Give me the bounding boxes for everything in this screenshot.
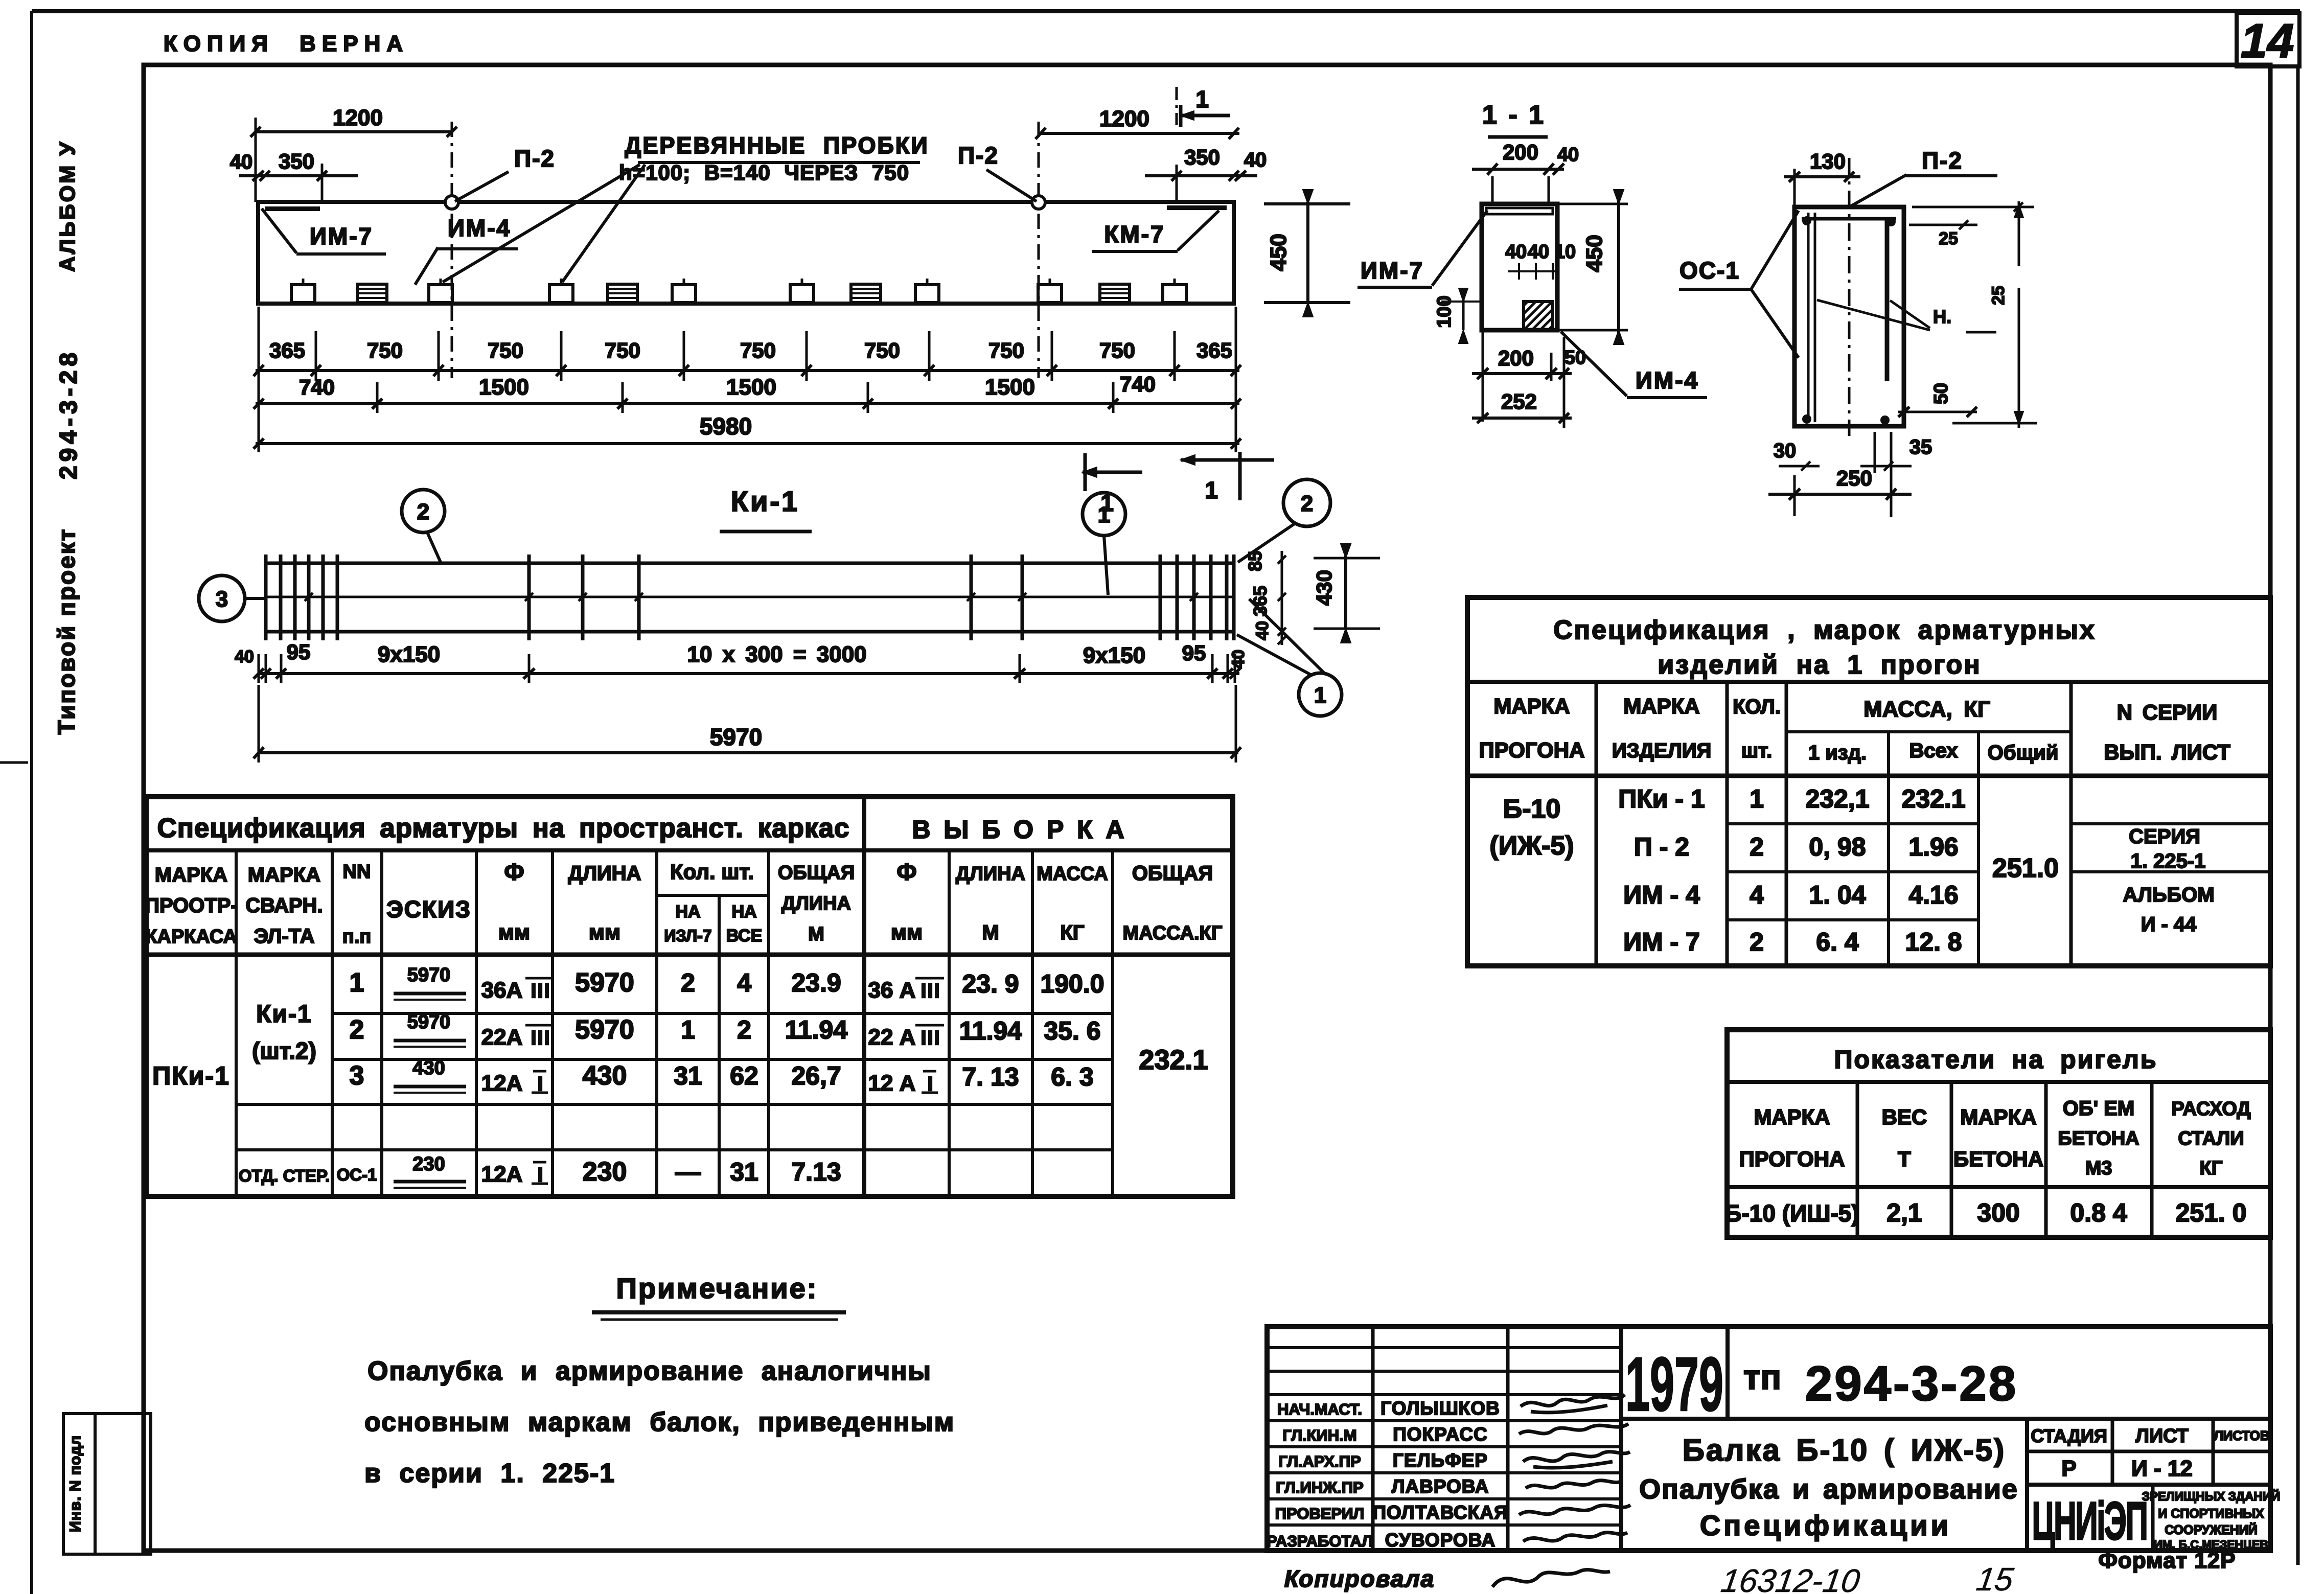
svg-text:2: 2 <box>681 968 695 997</box>
svg-text:МАРКА: МАРКА <box>248 864 320 886</box>
svg-text:И СПОРТИВНЫХ: И СПОРТИВНЫХ <box>2158 1507 2264 1521</box>
svg-text:430: 430 <box>1312 570 1336 606</box>
svg-text:Примечание:: Примечание: <box>616 1272 818 1304</box>
svg-text:ПОКРАСС: ПОКРАСС <box>1393 1424 1488 1445</box>
svg-text:85: 85 <box>1245 551 1265 571</box>
svg-text:БЕТОНА: БЕТОНА <box>2058 1128 2139 1149</box>
svg-text:мм: мм <box>498 920 530 944</box>
svg-text:СУВОРОВА: СУВОРОВА <box>1385 1530 1495 1551</box>
svg-text:1500: 1500 <box>985 375 1035 400</box>
svg-text:6. 3: 6. 3 <box>1051 1062 1093 1091</box>
svg-text:6. 4: 6. 4 <box>1816 928 1859 956</box>
svg-text:СТАЛИ: СТАЛИ <box>2178 1128 2244 1149</box>
svg-text:МАРКА: МАРКА <box>1623 694 1699 718</box>
svg-text:36А: 36А <box>481 978 523 1003</box>
svg-text:(шт.2): (шт.2) <box>252 1037 316 1064</box>
svg-text:МАРКА: МАРКА <box>1754 1105 1830 1129</box>
svg-text:КОЛ.: КОЛ. <box>1733 696 1781 718</box>
svg-text:ИМ-7: ИМ-7 <box>1361 257 1424 284</box>
svg-text:2: 2 <box>1750 833 1764 861</box>
svg-text:5980: 5980 <box>700 413 752 440</box>
svg-text:СООРУЖЕНИЙ: СООРУЖЕНИЙ <box>2165 1522 2257 1537</box>
svg-text:30: 30 <box>1774 440 1797 462</box>
svg-text:40: 40 <box>1229 650 1248 669</box>
svg-text:АЛЬБОМ: АЛЬБОМ <box>2123 884 2214 906</box>
svg-text:ИМ-4: ИМ-4 <box>1636 367 1699 394</box>
svg-text:III: III <box>531 980 550 1002</box>
svg-text:31: 31 <box>674 1061 702 1090</box>
svg-text:Т: Т <box>1898 1147 1911 1171</box>
svg-text:ЛАВРОВА: ЛАВРОВА <box>1392 1476 1489 1497</box>
svg-text:NN: NN <box>343 861 371 883</box>
svg-text:М3: М3 <box>2085 1158 2112 1179</box>
svg-text:КМ-7: КМ-7 <box>1104 221 1165 247</box>
svg-text:750: 750 <box>367 338 403 362</box>
svg-text:III: III <box>921 980 940 1002</box>
svg-text:750: 750 <box>864 338 900 362</box>
svg-text:35. 6: 35. 6 <box>1044 1017 1100 1045</box>
svg-text:в серии 1. 225-1: в серии 1. 225-1 <box>364 1459 615 1488</box>
svg-text:ЗРЕЛИЩНЫХ ЗДАНИЙ: ЗРЕЛИЩНЫХ ЗДАНИЙ <box>2142 1489 2280 1504</box>
svg-text:12А: 12А <box>481 1071 523 1096</box>
svg-text:ИМ - 4: ИМ - 4 <box>1623 881 1700 909</box>
svg-text:N СЕРИИ: N СЕРИИ <box>2117 700 2218 724</box>
svg-text:Балка Б-10 ( ИЖ-5): Балка Б-10 ( ИЖ-5) <box>1683 1433 2006 1467</box>
svg-text:22 А: 22 А <box>868 1025 916 1050</box>
svg-text:МАРКА: МАРКА <box>1960 1105 2036 1129</box>
svg-text:Общий: Общий <box>1988 742 2059 764</box>
svg-text:450: 450 <box>1266 234 1291 271</box>
svg-text:Опалубка и армирование ан: Опалубка и армирование аналогичны <box>367 1356 932 1386</box>
svg-text:ГОЛЫШКОВ: ГОЛЫШКОВ <box>1380 1398 1500 1419</box>
svg-text:1: 1 <box>1195 86 1209 112</box>
svg-text:ЛИСТОВ: ЛИСТОВ <box>2214 1428 2269 1443</box>
svg-text:ЭЛ-ТА: ЭЛ-ТА <box>254 925 314 948</box>
svg-text:40: 40 <box>1528 241 1549 263</box>
svg-text:КАРКАСА: КАРКАСА <box>145 926 237 948</box>
svg-text:ОБЩАЯ: ОБЩАЯ <box>1132 862 1213 885</box>
svg-text:МАРКА: МАРКА <box>1493 694 1570 718</box>
svg-text:251. 0: 251. 0 <box>2175 1198 2246 1227</box>
svg-text:ГЛ.ИНЖ.ПР: ГЛ.ИНЖ.ПР <box>1276 1479 1363 1496</box>
svg-text:1500: 1500 <box>479 375 529 400</box>
svg-text:26,7: 26,7 <box>791 1061 841 1090</box>
svg-text:294-3-28: 294-3-28 <box>55 349 82 479</box>
svg-text:БЕТОНА: БЕТОНА <box>1953 1147 2043 1171</box>
svg-text:РАЗРАБОТАЛ: РАЗРАБОТАЛ <box>1267 1532 1373 1550</box>
svg-text:Формат 12Р: Формат 12Р <box>2098 1548 2236 1573</box>
svg-text:—: — <box>675 1158 701 1186</box>
svg-text:П - 2: П - 2 <box>1634 833 1689 861</box>
svg-text:250: 250 <box>1836 466 1872 490</box>
svg-text:ПОЛТАВСКАЯ: ПОЛТАВСКАЯ <box>1372 1502 1508 1523</box>
svg-text:5970: 5970 <box>710 724 762 750</box>
svg-text:300: 300 <box>1977 1198 2019 1227</box>
svg-text:ДЛИНА: ДЛИНА <box>781 893 851 914</box>
svg-text:(ИЖ-5): (ИЖ-5) <box>1489 831 1574 861</box>
svg-text:2: 2 <box>737 1015 751 1044</box>
svg-text:190.0: 190.0 <box>1040 969 1104 998</box>
svg-text:9x150: 9x150 <box>1083 643 1145 668</box>
svg-text:ОБ' ЕМ: ОБ' ЕМ <box>2063 1097 2135 1120</box>
svg-text:Инв. N подл: Инв. N подл <box>67 1435 84 1532</box>
svg-text:1. 225-1: 1. 225-1 <box>2131 850 2206 872</box>
svg-text:МАРКА: МАРКА <box>155 864 227 886</box>
svg-text:ИМ-4: ИМ-4 <box>448 215 511 241</box>
svg-text:5970: 5970 <box>575 968 634 998</box>
svg-text:750: 750 <box>740 338 776 362</box>
svg-text:Опалубка и армирование: Опалубка и армирование <box>1639 1474 2018 1505</box>
svg-text:И - 44: И - 44 <box>2141 913 2197 936</box>
svg-text:3: 3 <box>216 587 228 612</box>
svg-text:40: 40 <box>1244 149 1267 171</box>
svg-text:Типовой проект: Типовой проект <box>53 528 80 734</box>
svg-text:1 изд.: 1 изд. <box>1808 742 1867 764</box>
svg-text:ИЗДЕЛИЯ: ИЗДЕЛИЯ <box>1612 740 1712 762</box>
svg-text:Б-10 (ИШ-5): Б-10 (ИШ-5) <box>1724 1200 1859 1227</box>
svg-text:Кол. шт.: Кол. шт. <box>670 860 754 884</box>
svg-text:I: I <box>537 1073 544 1095</box>
svg-text:750: 750 <box>1099 338 1135 362</box>
svg-text:11.94: 11.94 <box>959 1017 1022 1045</box>
svg-text:ПКи-1: ПКи-1 <box>152 1061 230 1090</box>
svg-text:П-2: П-2 <box>514 145 555 172</box>
svg-text:40: 40 <box>1253 621 1272 640</box>
svg-text:НА: НА <box>675 902 700 921</box>
svg-text:Б-10: Б-10 <box>1503 794 1561 824</box>
svg-text:h=100; В=140 ЧЕРЕЗ 750: h=100; В=140 ЧЕРЕЗ 750 <box>619 160 909 184</box>
svg-text:740: 740 <box>1120 372 1156 396</box>
svg-text:4.16: 4.16 <box>1908 881 1958 909</box>
svg-text:ПРОВЕРИЛ: ПРОВЕРИЛ <box>1275 1505 1364 1522</box>
svg-text:14: 14 <box>2241 14 2294 67</box>
svg-text:П-2: П-2 <box>958 142 999 169</box>
svg-text:ИМ-7: ИМ-7 <box>310 223 373 249</box>
svg-text:2: 2 <box>350 1015 364 1045</box>
svg-text:2,1: 2,1 <box>1886 1198 1922 1227</box>
svg-text:РАСХОД: РАСХОД <box>2172 1098 2251 1120</box>
svg-text:36 А: 36 А <box>868 978 916 1003</box>
svg-text:СТАДИЯ: СТАДИЯ <box>2031 1425 2107 1446</box>
svg-text:Копировала: Копировала <box>1284 1565 1435 1592</box>
svg-text:СВАРН.: СВАРН. <box>245 894 323 917</box>
svg-text:ОТД. СТЕР.: ОТД. СТЕР. <box>239 1166 330 1185</box>
svg-text:1.96: 1.96 <box>1908 833 1958 861</box>
svg-text:ПРОГОНА: ПРОГОНА <box>1739 1147 1845 1171</box>
svg-text:1: 1 <box>1750 784 1764 813</box>
svg-text:10 x 300 = 3000: 10 x 300 = 3000 <box>687 642 866 667</box>
svg-text:ГЛ.КИН.М: ГЛ.КИН.М <box>1282 1426 1356 1444</box>
svg-text:ДЕРЕВЯННЫЕ ПРОБКИ: ДЕРЕВЯННЫЕ ПРОБКИ <box>625 132 929 158</box>
svg-text:2: 2 <box>417 499 429 524</box>
svg-text:40: 40 <box>235 647 254 666</box>
svg-text:2: 2 <box>1301 491 1313 516</box>
svg-text:0, 98: 0, 98 <box>1809 833 1866 861</box>
svg-text:10: 10 <box>1554 241 1576 263</box>
svg-text:3: 3 <box>350 1061 364 1091</box>
svg-text:1: 1 <box>1205 477 1218 503</box>
svg-text:350: 350 <box>279 149 314 173</box>
svg-text:М: М <box>982 921 999 944</box>
svg-text:ИМ - 7: ИМ - 7 <box>1623 928 1700 956</box>
svg-text:мм: мм <box>589 920 620 944</box>
svg-text:230: 230 <box>583 1157 627 1187</box>
svg-text:1 - 1: 1 - 1 <box>1482 100 1546 130</box>
svg-text:5970: 5970 <box>407 964 451 986</box>
svg-text:0.8 4: 0.8 4 <box>2070 1198 2127 1227</box>
svg-text:изделий на 1 прогон: изделий на 1 прогон <box>1658 650 1981 680</box>
svg-text:294-3-28: 294-3-28 <box>1805 1356 2018 1411</box>
svg-text:12. 8: 12. 8 <box>1905 928 1962 956</box>
svg-text:16312-10: 16312-10 <box>1719 1562 1862 1594</box>
svg-text:12 А: 12 А <box>868 1071 916 1096</box>
svg-text:1: 1 <box>1098 502 1110 527</box>
svg-text:Показатели на ригель: Показатели на ригель <box>1834 1045 2158 1074</box>
svg-text:95: 95 <box>1182 641 1206 665</box>
svg-text:130: 130 <box>1810 149 1846 173</box>
svg-text:ВЫП. ЛИСТ: ВЫП. ЛИСТ <box>2104 740 2230 764</box>
svg-text:ГЕЛЬФЕР: ГЕЛЬФЕР <box>1393 1450 1488 1471</box>
svg-text:Р: Р <box>2061 1456 2076 1481</box>
svg-text:ПРОГОНА: ПРОГОНА <box>1479 738 1585 762</box>
svg-text:1: 1 <box>1314 683 1326 708</box>
svg-text:I: I <box>927 1073 934 1095</box>
svg-text:ИЗЛ-7: ИЗЛ-7 <box>664 927 711 945</box>
svg-text:КОПИЯ ВЕРНА: КОПИЯ ВЕРНА <box>164 31 409 56</box>
svg-text:251.0: 251.0 <box>1992 853 2059 883</box>
svg-text:1500: 1500 <box>726 375 776 400</box>
svg-text:7.13: 7.13 <box>791 1158 841 1186</box>
svg-text:ОС-1: ОС-1 <box>1679 257 1740 284</box>
svg-text:КГ: КГ <box>2200 1158 2223 1179</box>
svg-text:мм: мм <box>891 920 923 944</box>
svg-text:25: 25 <box>1939 229 1958 248</box>
svg-text:1: 1 <box>681 1015 695 1044</box>
svg-text:Спецификация , марок арматур: Спецификация , марок арматурных <box>1553 615 2096 645</box>
svg-text:МАССА.КГ: МАССА.КГ <box>1123 922 1223 944</box>
svg-text:365: 365 <box>269 338 305 362</box>
svg-text:ЛИСТ: ЛИСТ <box>2135 1425 2189 1447</box>
svg-text:основным маркам балок, п: основным маркам балок, приведенным <box>364 1407 955 1437</box>
svg-text:Ф: Ф <box>896 859 916 885</box>
svg-text:95: 95 <box>287 640 311 664</box>
svg-text:М: М <box>808 923 824 945</box>
svg-text:232.1: 232.1 <box>1901 784 1965 813</box>
svg-text:НА: НА <box>731 902 756 921</box>
svg-text:ЦНИіЭП: ЦНИіЭП <box>2032 1491 2147 1551</box>
svg-text:23.9: 23.9 <box>791 968 841 997</box>
svg-text:25: 25 <box>1989 286 2008 305</box>
svg-text:4: 4 <box>1750 881 1764 909</box>
svg-text:Всех: Всех <box>1909 740 1958 762</box>
svg-text:750: 750 <box>988 338 1024 362</box>
svg-text:III: III <box>921 1027 940 1049</box>
svg-text:КГ: КГ <box>1060 921 1084 944</box>
svg-text:шт.: шт. <box>1741 740 1773 762</box>
svg-text:23. 9: 23. 9 <box>962 969 1019 998</box>
svg-text:230: 230 <box>412 1153 445 1175</box>
svg-text:11.94: 11.94 <box>785 1015 848 1044</box>
svg-text:50: 50 <box>1564 347 1586 368</box>
svg-text:4: 4 <box>737 968 751 997</box>
svg-text:100: 100 <box>1434 295 1455 328</box>
svg-text:35: 35 <box>1909 436 1932 458</box>
svg-text:ЭСКИЗ: ЭСКИЗ <box>386 896 471 922</box>
svg-text:22А: 22А <box>481 1025 523 1050</box>
svg-text:АЛЬБОМ У: АЛЬБОМ У <box>55 140 79 272</box>
svg-text:тп: тп <box>1743 1358 1781 1397</box>
svg-text:450: 450 <box>1582 235 1607 272</box>
svg-text:ДЛИНА: ДЛИНА <box>568 862 641 885</box>
svg-text:5970: 5970 <box>407 1011 451 1033</box>
svg-text:40: 40 <box>1505 241 1527 263</box>
svg-text:9x150: 9x150 <box>378 642 440 667</box>
svg-text:40: 40 <box>1557 144 1579 166</box>
svg-text:2: 2 <box>1750 928 1764 956</box>
svg-text:252: 252 <box>1501 389 1537 413</box>
svg-text:750: 750 <box>605 338 640 362</box>
svg-text:430: 430 <box>583 1061 627 1091</box>
svg-text:ПКи - 1: ПКи - 1 <box>1618 784 1705 813</box>
svg-text:1979: 1979 <box>1625 1341 1723 1427</box>
svg-text:ВЕС: ВЕС <box>1882 1105 1927 1129</box>
svg-text:232.1: 232.1 <box>1139 1045 1208 1075</box>
svg-text:15: 15 <box>1974 1561 2015 1594</box>
svg-text:40: 40 <box>230 151 253 173</box>
svg-text:ОБЩАЯ: ОБЩАЯ <box>778 862 855 884</box>
svg-text:232,1: 232,1 <box>1805 784 1869 813</box>
svg-text:Спецификации: Спецификации <box>1700 1509 1951 1541</box>
svg-text:Ф: Ф <box>504 859 524 885</box>
svg-text:П-2: П-2 <box>1922 147 1963 174</box>
svg-text:В Ы Б О Р К А: В Ы Б О Р К А <box>912 815 1127 844</box>
svg-text:ПРООТР-: ПРООТР- <box>145 894 238 917</box>
svg-text:50: 50 <box>1930 383 1952 404</box>
svg-text:п.п: п.п <box>342 926 371 948</box>
svg-text:МАССА: МАССА <box>1037 863 1108 885</box>
svg-text:200: 200 <box>1498 346 1534 370</box>
svg-text:1. 04: 1. 04 <box>1809 881 1866 909</box>
svg-text:62: 62 <box>730 1061 758 1090</box>
svg-text:МАССА, КГ: МАССА, КГ <box>1863 697 1990 722</box>
svg-text:ДЛИНА: ДЛИНА <box>956 863 1025 885</box>
svg-text:И - 12: И - 12 <box>2131 1456 2193 1481</box>
svg-text:НАЧ.МАСТ.: НАЧ.МАСТ. <box>1277 1400 1362 1418</box>
svg-text:750: 750 <box>488 338 523 362</box>
svg-text:Спецификация арматуры на пр: Спецификация арматуры на пространст. кар… <box>157 813 850 843</box>
svg-text:1: 1 <box>350 968 364 998</box>
svg-text:Ки-1: Ки-1 <box>731 485 799 517</box>
svg-text:12А: 12А <box>481 1162 523 1187</box>
svg-text:365: 365 <box>1196 338 1232 362</box>
svg-text:ГЛ.АРХ.ПР: ГЛ.АРХ.ПР <box>1278 1452 1361 1470</box>
svg-text:7. 13: 7. 13 <box>962 1062 1019 1091</box>
svg-text:5970: 5970 <box>575 1015 634 1045</box>
svg-text:Н.: Н. <box>1933 306 1951 327</box>
svg-text:31: 31 <box>730 1158 758 1186</box>
svg-text:430: 430 <box>412 1057 445 1079</box>
svg-text:1200: 1200 <box>1099 106 1149 131</box>
svg-text:ОС-1: ОС-1 <box>337 1165 377 1184</box>
svg-text:СЕРИЯ: СЕРИЯ <box>2129 825 2200 848</box>
svg-text:200: 200 <box>1503 140 1538 164</box>
svg-text:350: 350 <box>1184 145 1220 169</box>
svg-text:III: III <box>531 1027 550 1049</box>
svg-text:740: 740 <box>299 375 335 399</box>
svg-text:Ки-1: Ки-1 <box>256 1001 312 1028</box>
svg-text:I: I <box>537 1164 544 1186</box>
svg-text:1200: 1200 <box>333 105 383 130</box>
svg-text:ВСЕ: ВСЕ <box>726 926 763 945</box>
svg-text:365: 365 <box>1250 586 1271 616</box>
